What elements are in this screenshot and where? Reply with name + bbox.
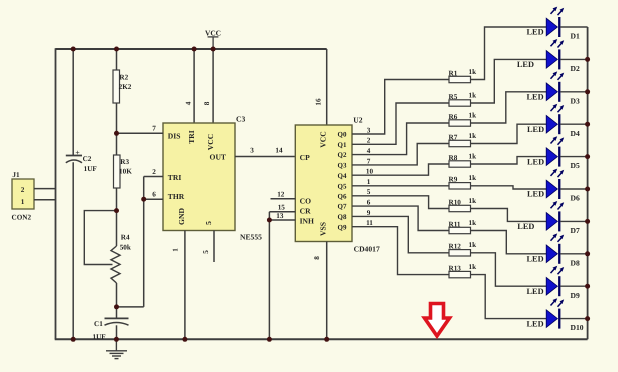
wire Q0 (pin 3) to R1 (352, 80, 449, 135)
junction dots on VCC rail (71, 47, 216, 52)
resistor R12 1k (449, 241, 477, 256)
svg-text:3: 3 (250, 147, 254, 155)
wire C2 branch vertical (72, 49, 74, 339)
wire CR pin15 (269, 211, 295, 213)
svg-text:D2: D2 (571, 64, 580, 73)
wire Q3 (pin 7) to R7 (352, 144, 449, 166)
svg-text:R11: R11 (449, 220, 461, 228)
svg-text:CR: CR (300, 206, 311, 215)
wire R6 to D3 (471, 92, 547, 123)
svg-text:Q7: Q7 (338, 203, 347, 211)
svg-text:R2: R2 (119, 73, 128, 81)
red highlight arrow (425, 304, 450, 337)
wire TRI-THR-C1 vertical (143, 177, 145, 307)
svg-text:1: 1 (367, 178, 371, 186)
svg-text:1k: 1k (469, 152, 477, 160)
svg-text:4: 4 (185, 101, 193, 105)
svg-text:D8: D8 (571, 258, 580, 267)
svg-text:1k: 1k (469, 174, 477, 182)
svg-text:R13: R13 (449, 264, 462, 272)
LED D1 (527, 7, 588, 41)
svg-text:J1: J1 (12, 171, 20, 179)
wire INH pin13 (269, 219, 295, 221)
wire left spine (R2/R3/R4/C1 column) (116, 49, 118, 339)
resistor R2 2K2 (113, 70, 132, 103)
svg-text:2K2: 2K2 (119, 83, 132, 91)
junction dot R4 top node (114, 208, 119, 213)
svg-text:14: 14 (275, 147, 283, 155)
svg-text:8: 8 (313, 256, 321, 260)
svg-text:THR: THR (168, 192, 185, 201)
capacitor C1 1UF (93, 318, 129, 341)
svg-text:VCC: VCC (319, 131, 328, 147)
svg-text:Q4: Q4 (338, 172, 347, 180)
wire CD4017 pin8 VSS to bottom rail (326, 242, 328, 340)
LED D4 (527, 104, 588, 138)
wire CO pin12 stub (271, 198, 296, 200)
LED D9 (527, 266, 588, 300)
svg-text:LED: LED (517, 60, 534, 69)
svg-text:1k: 1k (469, 132, 477, 140)
LED D10 (527, 298, 588, 332)
wire Q5 (pin 1) to R9 (352, 178, 449, 186)
svg-text:2: 2 (21, 186, 25, 194)
svg-text:C2: C2 (83, 155, 92, 163)
timer U1 NE555 (designator C3) (163, 114, 262, 241)
svg-text:1UF: 1UF (84, 165, 98, 173)
svg-text:R12: R12 (449, 243, 462, 251)
wire R9 to D6 (471, 186, 547, 189)
wire left outer vertical (55, 48, 57, 339)
svg-text:1k: 1k (469, 241, 477, 249)
wire R11 to D8 (471, 231, 547, 254)
svg-text:1k: 1k (469, 219, 477, 227)
svg-text:D10: D10 (571, 323, 584, 332)
svg-text:CP: CP (300, 153, 310, 162)
wire Q2 (pin 4) to R6 (352, 123, 449, 155)
resistor R10 1k (449, 197, 477, 212)
svg-text:LED: LED (527, 125, 544, 134)
svg-text:Q0: Q0 (338, 131, 347, 139)
wire NE555 pin5 stub (213, 231, 215, 263)
svg-text:LED: LED (527, 28, 544, 37)
resistor R8 1k (449, 152, 477, 167)
svg-text:Q5: Q5 (338, 182, 347, 190)
LED D6 (527, 169, 588, 203)
junction dot C1 top node (114, 304, 119, 309)
wire Q1 (pin 2) to R5 (352, 103, 449, 145)
svg-text:1: 1 (21, 198, 25, 206)
svg-text:1k: 1k (469, 91, 477, 99)
wire Q6 (pin 5) to R10 (352, 188, 449, 208)
svg-text:2: 2 (152, 168, 156, 176)
LED D8 (527, 233, 588, 267)
svg-text:R6: R6 (449, 113, 458, 121)
wire Q9 (pin 11) to R13 (352, 219, 449, 275)
svg-text:D1: D1 (571, 32, 580, 41)
wire R12 to D9 (471, 253, 547, 286)
svg-text:VCC: VCC (205, 29, 221, 38)
wire J1 pin2 to left rail (34, 188, 56, 190)
wire Q7 (pin 6) to R11 (352, 199, 449, 231)
svg-text:Q2: Q2 (338, 151, 347, 159)
svg-text:CON2: CON2 (12, 214, 32, 222)
svg-text:LED: LED (527, 319, 544, 328)
svg-text:13: 13 (276, 212, 284, 220)
svg-text:LED: LED (517, 222, 534, 231)
svg-text:16: 16 (314, 98, 322, 106)
wire NE555 pin1 GND to bottom rail (184, 231, 186, 340)
svg-text:10K: 10K (119, 168, 132, 176)
svg-text:+: + (75, 148, 79, 157)
svg-text:8: 8 (203, 101, 211, 105)
wire VCC top rail (56, 48, 327, 50)
svg-text:7: 7 (367, 157, 371, 165)
junction dot THR node (141, 197, 146, 202)
svg-text:50k: 50k (120, 243, 131, 251)
svg-text:D7: D7 (571, 226, 580, 235)
svg-text:DIS: DIS (168, 131, 181, 140)
wire OUT pin3 to CP pin14 (235, 156, 295, 158)
wire R13 to D10 (471, 275, 547, 319)
svg-text:10: 10 (366, 168, 374, 176)
capacitor C2 1UF (polarized) (66, 148, 98, 173)
svg-text:7: 7 (152, 124, 156, 132)
svg-text:R1: R1 (449, 69, 458, 77)
svg-text:D6: D6 (571, 194, 580, 203)
svg-text:LED: LED (527, 255, 544, 264)
resistor R1 1k (449, 68, 477, 83)
resistor R4 50k (trimmer with wiper loop) (84, 211, 131, 283)
svg-text:1k: 1k (469, 111, 477, 119)
svg-text:OUT: OUT (210, 152, 226, 161)
svg-text:TRI: TRI (168, 173, 182, 182)
resistor R5 1k (449, 91, 477, 106)
wire GND bottom rail (55, 338, 588, 340)
svg-text:R3: R3 (120, 158, 129, 166)
wire NE555 pin8 to VCC rail (212, 49, 214, 123)
svg-text:6: 6 (152, 190, 156, 198)
svg-text:5: 5 (204, 221, 213, 225)
svg-text:15: 15 (278, 204, 286, 212)
svg-text:D4: D4 (571, 129, 580, 138)
junction dots on bottom rail (71, 337, 330, 342)
VCC power symbol (205, 29, 221, 50)
wire Q4 (pin 10) to R8 (352, 164, 449, 176)
svg-text:D9: D9 (571, 291, 580, 300)
counter U2 CD4017 (295, 115, 380, 253)
wire TRI pin2 (144, 176, 163, 178)
resistor R9 1k (449, 174, 477, 189)
svg-text:R8: R8 (449, 154, 458, 162)
svg-text:R10: R10 (449, 198, 462, 206)
svg-text:CD4017: CD4017 (354, 245, 380, 254)
svg-text:3: 3 (367, 126, 371, 134)
svg-text:1UF: 1UF (93, 333, 107, 341)
wire R10 to D7 (471, 209, 547, 222)
resistor R3 10K (114, 155, 133, 188)
svg-text:4: 4 (367, 147, 371, 155)
svg-text:R5: R5 (449, 93, 458, 101)
svg-text:R9: R9 (449, 176, 458, 184)
svg-text:VSS: VSS (319, 222, 328, 236)
wire NE555 pin4 to VCC rail (193, 49, 195, 123)
ground symbol (106, 339, 127, 358)
svg-text:LED: LED (527, 190, 544, 199)
svg-text:Q9: Q9 (338, 223, 347, 231)
svg-text:Q1: Q1 (338, 141, 347, 149)
svg-text:GND: GND (177, 208, 186, 225)
LED D5 (527, 136, 588, 170)
svg-text:R4: R4 (121, 233, 130, 241)
wire R5 to D2 (471, 59, 547, 103)
svg-text:5: 5 (202, 250, 210, 254)
junction dot DIS/R2/R3 node (114, 131, 119, 136)
resistor R6 1k (449, 111, 477, 126)
svg-text:1: 1 (172, 248, 180, 252)
svg-text:LED: LED (527, 287, 544, 296)
svg-text:1k: 1k (469, 263, 477, 271)
svg-text:D5: D5 (571, 161, 580, 170)
wire Q8 (pin 9) to R12 (352, 209, 449, 253)
svg-text:C1: C1 (94, 320, 103, 328)
svg-text:12: 12 (277, 191, 285, 199)
svg-text:5: 5 (367, 188, 371, 196)
svg-text:Q3: Q3 (338, 162, 347, 170)
svg-text:11: 11 (366, 219, 373, 227)
svg-text:9: 9 (367, 209, 371, 217)
svg-text:2: 2 (367, 137, 371, 145)
svg-text:INH: INH (300, 216, 314, 225)
resistor R13 1k (449, 263, 477, 278)
connector J1 CON2 (12, 171, 35, 221)
LED D2 (517, 39, 588, 73)
svg-text:6: 6 (367, 199, 371, 207)
resistor R7 1k (449, 132, 477, 147)
svg-text:Q8: Q8 (338, 213, 347, 221)
svg-text:C3: C3 (236, 114, 245, 123)
wire J1 pin1 to left rail (34, 199, 56, 201)
junction dot INH/CR node (267, 218, 272, 223)
wire R1 to D1 (471, 27, 547, 80)
LED D3 (527, 71, 588, 105)
svg-text:1k: 1k (469, 197, 477, 205)
svg-text:LED: LED (527, 93, 544, 102)
wire CR/INH to bottom rail (268, 212, 270, 339)
wire R8 to D5 (471, 157, 547, 164)
svg-text:R7: R7 (449, 133, 458, 141)
wire THR pin6 (144, 198, 163, 200)
junction dots on right cathode rail (585, 57, 590, 321)
resistor R11 1k (449, 219, 477, 234)
wire right cathode rail (587, 27, 589, 339)
svg-text:CO: CO (300, 197, 311, 206)
wire R7 to D4 (471, 124, 547, 143)
svg-text:U2: U2 (353, 115, 362, 124)
wire CD4017 pin16 to VCC rail (326, 49, 328, 125)
svg-text:NE555: NE555 (240, 233, 262, 242)
wire C1 top to THR column (117, 306, 144, 308)
LED D7 (517, 201, 587, 235)
svg-text:TRI: TRI (187, 130, 196, 144)
wire DIS pin7 to spine (117, 132, 164, 134)
svg-text:VCC: VCC (206, 134, 215, 150)
svg-text:LED: LED (527, 157, 544, 166)
svg-text:1k: 1k (469, 68, 477, 76)
svg-text:Q6: Q6 (338, 192, 347, 200)
svg-text:D3: D3 (571, 96, 580, 105)
